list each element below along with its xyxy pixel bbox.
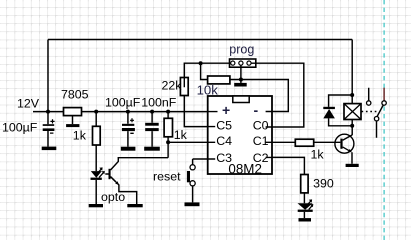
svg-text:22k: 22k (162, 79, 183, 93)
svg-text:C4: C4 (216, 134, 232, 148)
svg-text:1k: 1k (174, 128, 188, 142)
svg-text:C0: C0 (253, 119, 269, 133)
svg-text:08M2: 08M2 (228, 161, 262, 176)
svg-text:+: + (222, 102, 230, 118)
svg-text:7805: 7805 (61, 88, 89, 102)
svg-text:-: - (254, 102, 259, 118)
svg-text:1k: 1k (73, 129, 87, 143)
svg-text:1k: 1k (311, 147, 325, 161)
svg-text:reset: reset (153, 170, 181, 184)
svg-text:100nF: 100nF (141, 96, 177, 110)
svg-text:C1: C1 (253, 134, 269, 148)
svg-text:100µF: 100µF (105, 96, 141, 110)
svg-text:opto: opto (101, 190, 125, 204)
svg-text:12V: 12V (17, 97, 40, 111)
svg-text:100µF: 100µF (2, 120, 38, 134)
svg-text:C5: C5 (216, 119, 232, 133)
svg-text:390: 390 (313, 177, 334, 191)
svg-text:prog: prog (229, 42, 254, 56)
svg-text:10k: 10k (197, 82, 219, 97)
